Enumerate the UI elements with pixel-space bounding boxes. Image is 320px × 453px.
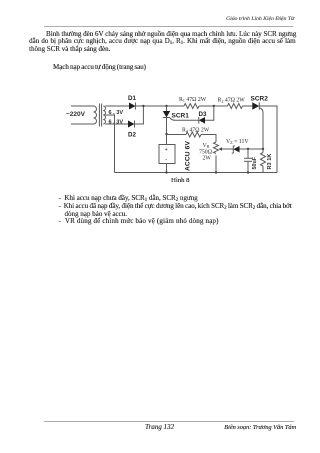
SCR1 (163, 106, 176, 134)
transformer T1 primary winding (94, 106, 97, 124)
resistor R4 (186, 132, 201, 137)
wire SCR1 gate to D3 (176, 119, 199, 121)
wire D3 anode up to rail (205, 106, 214, 120)
svg-text:SCR2: SCR2 (251, 95, 269, 102)
footer page number (145, 424, 174, 431)
junction node SCR2 gate (262, 148, 264, 150)
header text (226, 16, 294, 23)
svg-text:ACCU 6V: ACCU 6V (185, 141, 192, 171)
bullet 2 line 1 (59, 203, 292, 210)
zener diode VZ (232, 146, 240, 154)
junction node VR bottom (215, 171, 217, 173)
svg-text:-: - (165, 158, 167, 164)
junction node SCR1 anode (165, 105, 167, 107)
wire zener to gate junction (240, 148, 264, 150)
figure caption (171, 177, 189, 184)
junction node D3 branch (213, 105, 215, 107)
svg-text:SCR1: SCR1 (172, 113, 190, 120)
svg-text:~220V: ~220V (66, 111, 86, 118)
wire secondary bottom to D2 (105, 123, 128, 125)
junction node (142, 105, 144, 107)
svg-text:D2: D2 (128, 132, 136, 139)
svg-text:R2 47Ω 2W: R2 47Ω 2W (218, 98, 246, 104)
svg-text:D3: D3 (199, 111, 207, 118)
battery ACCU (159, 135, 175, 173)
svg-text:R4 47Ω 2W: R4 47Ω 2W (182, 127, 210, 133)
body paragraph line 1 (46, 31, 296, 38)
diode D1 (129, 103, 136, 110)
resistor R3 (261, 149, 266, 173)
svg-text:D1: D1 (128, 95, 136, 102)
SCR2 (252, 102, 263, 149)
bottom rail wire (115, 172, 278, 174)
bullet 3 (59, 218, 219, 225)
diode D3 (199, 117, 205, 124)
body paragraph line 3 (29, 46, 110, 53)
potentiometer VR (214, 142, 225, 173)
wire secondary top to D1 (105, 105, 129, 107)
svg-text:R1 47Ω 2W: R1 47Ω 2W (179, 97, 207, 103)
body paragraph line 2 (29, 38, 296, 45)
bullet 2 line 2 (65, 211, 127, 218)
wire to R4 (167, 134, 187, 136)
bullet 1 (59, 195, 198, 202)
wire R1 to R2 (199, 105, 228, 107)
junction node battery bottom (165, 171, 167, 173)
resistor R1 (184, 104, 199, 109)
junction node battery top (165, 133, 167, 135)
svg-text:VZ = 11V: VZ = 11V (226, 139, 249, 145)
wire D1 cathode along top rail (136, 105, 185, 107)
svg-text:R3 1K: R3 1K (267, 154, 273, 170)
footer rule (44, 421, 294, 422)
diode D2 (128, 121, 135, 128)
junction node cap top (247, 148, 249, 150)
wire wiper to zener (224, 148, 233, 150)
footer author (224, 424, 296, 431)
wire SCR2 cathode to right edge and down (259, 106, 277, 173)
transformer T1 secondary winding (103, 106, 105, 124)
wire D2 cathode up to rail (135, 106, 144, 124)
wire R4 to VR top (201, 135, 216, 143)
junction node cap bottom (247, 171, 249, 173)
resistor R2 (228, 104, 243, 109)
svg-text:VR: VR (203, 143, 210, 149)
transformer T1 core (99, 104, 101, 127)
transformer T1 primary leads (71, 106, 94, 124)
capacitor C1 50uF (244, 149, 252, 173)
svg-text:2W: 2W (203, 156, 212, 162)
svg-text:50uF: 50uF (252, 156, 258, 169)
header rule (44, 26, 293, 27)
wire R2 to SCR2 (243, 105, 253, 107)
section heading (53, 64, 146, 71)
svg-text:+: + (165, 147, 168, 153)
wire center tap (105, 115, 114, 173)
